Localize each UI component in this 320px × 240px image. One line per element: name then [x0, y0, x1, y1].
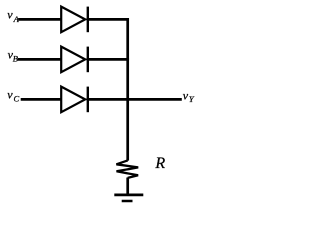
wire resistor to ground	[126, 178, 129, 195]
node vY label	[183, 89, 195, 104]
svg-text:v: v	[7, 8, 13, 22]
resistor R zigzag	[116, 160, 138, 178]
diode D1	[61, 7, 88, 33]
ground	[114, 195, 143, 201]
wire vB input	[18, 58, 62, 61]
diode D2	[61, 47, 88, 73]
node vB label	[8, 48, 18, 64]
wire D1 cathode to bus with corner down	[87, 19, 128, 60]
wire D2 cathode to bus	[87, 58, 128, 61]
svg-text:v: v	[183, 89, 189, 103]
node vC label	[7, 88, 19, 104]
wire bus vertical from row2 to resistor	[126, 58, 129, 161]
wire D3 cathode through junction to output	[87, 98, 182, 101]
svg-text:C: C	[14, 93, 20, 103]
wire vC input	[21, 98, 62, 101]
wire vA input	[18, 18, 62, 21]
diode D3	[61, 87, 88, 113]
svg-text:R: R	[154, 155, 165, 172]
node vA label	[7, 8, 19, 24]
svg-text:B: B	[13, 53, 18, 63]
svg-text:v: v	[7, 88, 13, 102]
